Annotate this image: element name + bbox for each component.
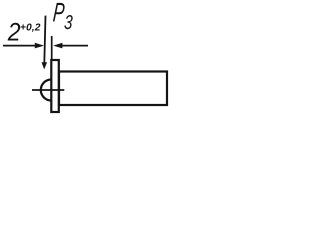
svg-text:+0,2: +0,2: [20, 22, 41, 33]
svg-text:2: 2: [7, 18, 21, 46]
svg-text:3: 3: [63, 11, 73, 34]
